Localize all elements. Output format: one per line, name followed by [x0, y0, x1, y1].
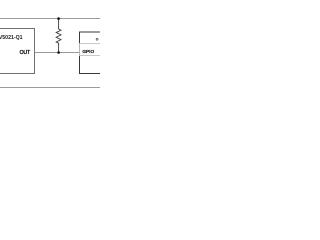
svg-text:GPIO: GPIO [82, 49, 94, 54]
svg-text:o: o [96, 38, 99, 43]
pin box GPIO of U2 [80, 44, 115, 56]
IC U1 (supervisor TLV5021-Q1, clipped at left edge) [0, 29, 35, 74]
junction on OUT net [57, 51, 60, 54]
svg-text:OUT: OUT [20, 50, 31, 56]
wire: OUT to GPIO net [35, 52, 80, 54]
IC U2 (MCU, clipped at right edge) [80, 32, 115, 74]
resistor R1 (pull-up from supply rail to OUT net) [56, 19, 61, 53]
wire: bottom rail [0, 87, 100, 89]
wire: top supply rail [0, 18, 100, 20]
background [0, 0, 100, 100]
junction on top rail [57, 17, 60, 20]
svg-text:TLV5021-Q1: TLV5021-Q1 [0, 35, 23, 41]
